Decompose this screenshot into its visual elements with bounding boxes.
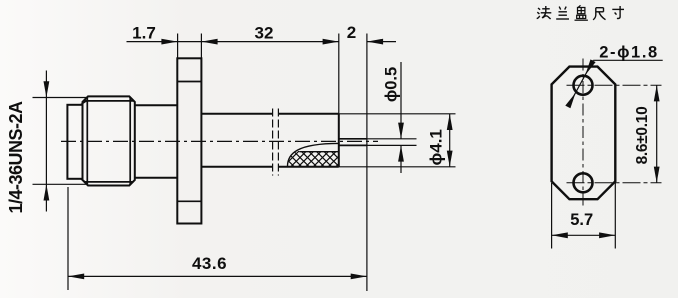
svg-text:32: 32 (255, 24, 274, 43)
svg-text:43.6: 43.6 (192, 254, 227, 273)
dimension 2 (pin protrusion) (347, 23, 396, 291)
mounting hole bottom (574, 173, 593, 192)
svg-text:2: 2 (347, 23, 356, 42)
svg-text:1.7: 1.7 (132, 24, 156, 43)
svg-text:8.6±0.10: 8.6±0.10 (634, 107, 651, 165)
dimension phi0.5 (pin diameter) (367, 62, 417, 173)
dimension 1/4-36UNS-2A (thread) (6, 71, 86, 214)
svg-text:ϕ0.5: ϕ0.5 (382, 67, 400, 102)
hole centerline top (567, 84, 662, 86)
hole centerline bottom (567, 182, 662, 184)
dimension phi4.1 (barrel diameter) (339, 114, 456, 167)
svg-text:ϕ4.1: ϕ4.1 (426, 129, 445, 165)
dimension 5.7 (flange width) (552, 183, 616, 249)
centerline main axis (61, 140, 378, 142)
flange (side view) (177, 58, 201, 223)
svg-text:2-ϕ1.8: 2-ϕ1.8 (599, 44, 659, 62)
svg-text:1/4-36UNS-2A: 1/4-36UNS-2A (6, 101, 26, 214)
title char 兰 (556, 7, 569, 19)
crosshatched insulator wedge (286, 143, 340, 167)
cylinder between hex and flange (135, 105, 178, 177)
coupling nut front section (67, 105, 82, 179)
dimension 8.6 +/-0.10 (hole spacing) (634, 85, 660, 183)
svg-text:5.7: 5.7 (570, 211, 593, 229)
title char 盘 (575, 5, 588, 20)
dimension 1.7 (flange thickness) (127, 24, 339, 59)
title char 尺 (593, 8, 605, 20)
title char 法 (537, 6, 552, 19)
break lines (273, 109, 279, 176)
title char 寸 (612, 6, 624, 19)
dielectric taper curve (288, 143, 339, 166)
flange plate outline (front view) (552, 67, 616, 200)
hex nut body (81, 96, 135, 185)
dimension 32 (barrel length) (255, 24, 339, 114)
barrel body with break (201, 114, 338, 167)
mounting hole top (574, 76, 593, 95)
center pin (339, 139, 367, 146)
dimension 43.6 (overall length) (68, 187, 367, 290)
flange vertical centerline (582, 59, 584, 207)
leader 2-phi1.8 (hole diameter callout) (565, 44, 662, 109)
